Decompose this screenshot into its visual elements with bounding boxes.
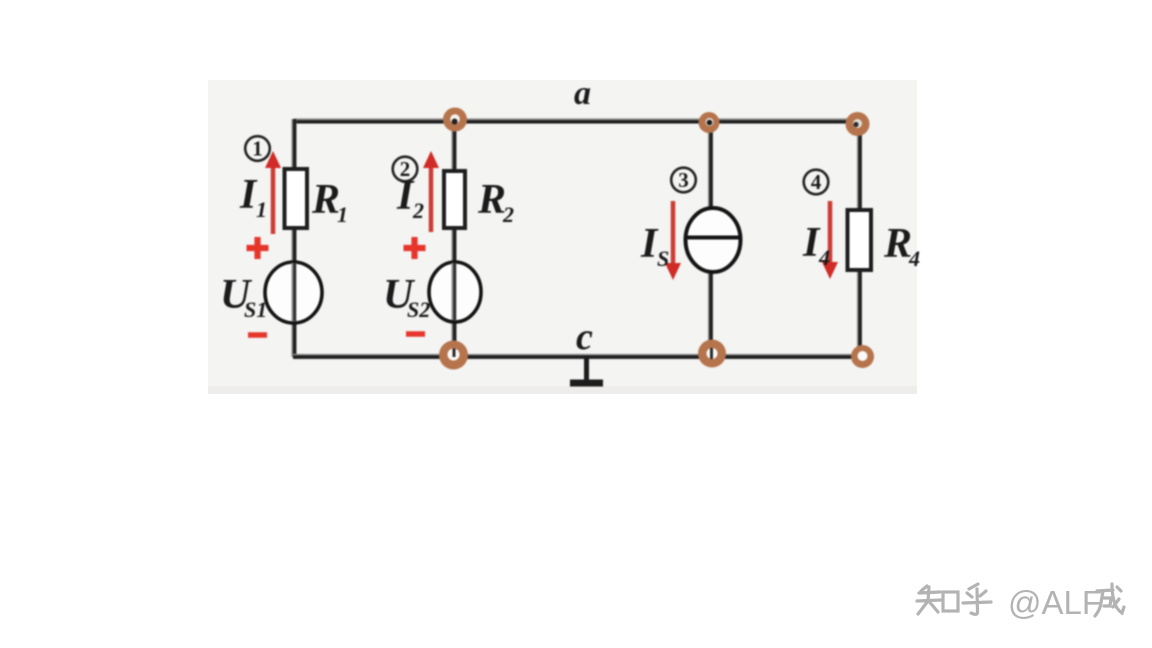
glyph zhi — [917, 586, 941, 614]
node top of branch 2 — [443, 108, 467, 132]
plus sign US2 — [404, 237, 426, 259]
panel bottom shade strip — [208, 386, 917, 394]
wire branch 3 vertical — [708, 121, 713, 354]
current arrow IS (down) — [671, 201, 676, 266]
current arrow I2 (up) — [429, 164, 434, 232]
current source IS circle with bar — [686, 208, 741, 272]
wire branch 2 vertical — [451, 119, 456, 355]
node top of branch 3 — [699, 112, 720, 133]
glyph hu — [963, 584, 991, 614]
svg-text:@ALF: @ALF — [1008, 584, 1102, 621]
circled number 2 — [393, 157, 418, 182]
node bottom right — [851, 345, 874, 368]
wire branch 4 vertical — [857, 121, 862, 357]
watermark zhihu @ALF cheng — [917, 584, 991, 614]
wire left vertical (branch 1) — [291, 119, 296, 357]
resistor R4 — [848, 210, 872, 270]
current arrow I4 (down) — [828, 201, 833, 265]
background panel — [208, 80, 917, 394]
resistor R1 — [285, 169, 308, 228]
current arrow I1 (up) — [271, 164, 276, 234]
ground at node c — [584, 357, 589, 381]
circled number 3 — [671, 168, 696, 193]
wire bottom c rail — [293, 354, 863, 359]
node top right — [846, 112, 870, 136]
resistor R2 — [444, 171, 465, 228]
node bottom of branch 3 — [698, 340, 726, 368]
voltage source US2 circle — [429, 262, 481, 322]
minus sign US2 — [406, 331, 425, 337]
wire top a: node a rail — [294, 118, 859, 123]
plus sign US1 — [247, 237, 269, 259]
circled number 1 — [245, 136, 270, 161]
voltage source US1 circle — [265, 262, 322, 323]
node bottom of branch 2 — [439, 341, 468, 370]
circled number 4 — [804, 170, 829, 195]
glyph cheng — [1095, 584, 1124, 616]
minus sign US1 — [248, 332, 267, 338]
